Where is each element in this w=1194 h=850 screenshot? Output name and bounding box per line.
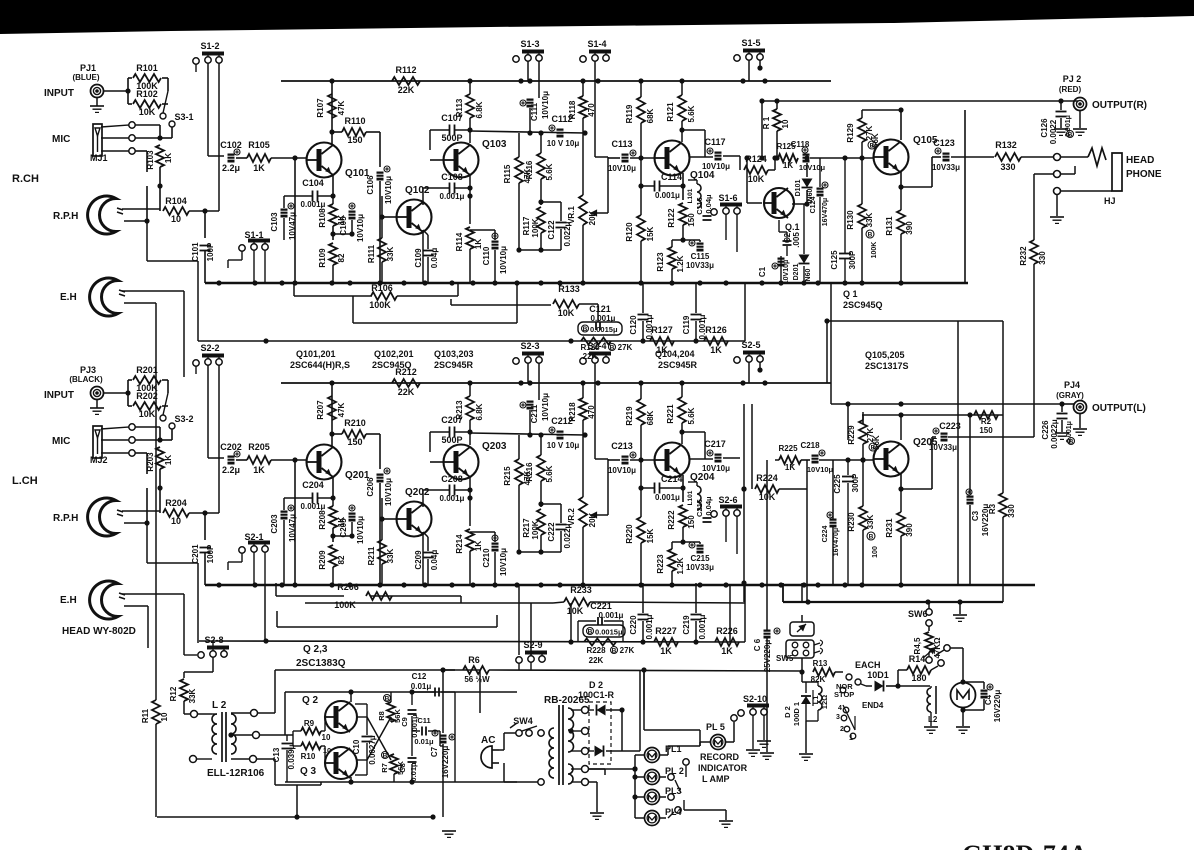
svg-text:C9: C9	[400, 717, 409, 727]
svg-text:C224: C224	[822, 526, 829, 543]
head R.PH ch2	[88, 498, 116, 536]
resistor R103 1K	[156, 145, 164, 167]
svg-text:IN60: IN60	[805, 269, 812, 284]
coil L101 3mH	[697, 486, 701, 510]
svg-text:Q102,201: Q102,201	[374, 349, 414, 359]
svg-text:Q 2: Q 2	[302, 695, 319, 706]
switch S2-3	[513, 358, 519, 364]
capacitor C114 0.001u	[654, 181, 656, 192]
wire ch1 top supply bus	[281, 80, 831, 82]
svg-text:C215: C215	[690, 554, 710, 563]
svg-text:R118: R118	[568, 100, 577, 119]
head R.PH ch1	[88, 196, 116, 234]
svg-text:10V10μ: 10V10μ	[608, 164, 636, 173]
switch S1-4	[580, 56, 586, 62]
bias transformer core	[221, 712, 223, 762]
svg-text:470: 470	[587, 103, 596, 117]
svg-text:6.8K: 6.8K	[475, 101, 484, 118]
wire Q101 emitter	[332, 175, 334, 196]
svg-text:100P: 100P	[206, 242, 215, 261]
capacitor C113 10V10u	[622, 154, 629, 163]
svg-text:R227: R227	[655, 626, 677, 636]
wire R232 drop	[1034, 173, 1053, 175]
svg-text:3: 3	[836, 714, 840, 721]
wire SW5 to bus	[801, 583, 803, 602]
svg-text:C116: C116	[695, 197, 704, 215]
svg-text:END4: END4	[862, 701, 884, 710]
wire R133 run	[450, 299, 452, 305]
svg-text:R216: R216	[525, 462, 534, 482]
svg-text:R110: R110	[344, 116, 365, 126]
transformer T1 core	[558, 705, 560, 785]
svg-text:R132: R132	[995, 140, 1017, 150]
capacitor C101 100P	[200, 245, 211, 247]
svg-text:R117: R117	[522, 216, 531, 235]
wire feedback level2	[352, 296, 354, 323]
svg-text:E.H: E.H	[60, 292, 77, 303]
svg-text:R11: R11	[141, 708, 150, 723]
svg-text:0.001μ: 0.001μ	[655, 191, 680, 200]
wire C7 drop	[442, 670, 444, 733]
transformer T1 primary	[549, 728, 554, 778]
lamp PL1	[645, 748, 660, 763]
resistor R11 10	[152, 700, 160, 724]
resistor R101 100K	[133, 74, 161, 82]
svg-text:33K: 33K	[865, 212, 874, 227]
svg-text:390: 390	[905, 221, 914, 235]
wire C101 to bus	[204, 251, 206, 283]
wire C206 down	[379, 483, 381, 585]
svg-text:S2-8: S2-8	[204, 635, 223, 645]
svg-text:100K: 100K	[871, 242, 878, 259]
transistor Q1	[764, 188, 794, 218]
capacitor C107 500P	[449, 125, 451, 136]
capacitor C13 0.039u	[281, 745, 285, 747]
svg-text:GH8D-74A: GH8D-74A	[962, 840, 1088, 850]
svg-text:16V470μ: 16V470μ	[833, 528, 840, 556]
resistor R111 33K	[378, 238, 386, 262]
svg-text:B: B	[612, 648, 617, 655]
wire osc box bottom	[454, 782, 456, 785]
resistor R224 10K	[755, 485, 779, 493]
svg-text:10V10μ: 10V10μ	[783, 260, 790, 285]
svg-text:C111: C111	[530, 102, 539, 121]
svg-text:10V33μ: 10V33μ	[929, 443, 957, 452]
resistor R1 10	[773, 109, 781, 131]
svg-text:10K: 10K	[567, 606, 584, 616]
svg-text:27K: 27K	[620, 646, 635, 655]
wire R104 to C101	[189, 210, 219, 212]
svg-text:PJ4: PJ4	[1064, 380, 1080, 390]
svg-text:10V10μ: 10V10μ	[356, 214, 365, 242]
svg-text:L101: L101	[687, 188, 694, 203]
wire Q204 emitter	[682, 475, 684, 502]
switch S1-2	[193, 58, 199, 64]
wire ch2 bottom ground bus	[205, 584, 1035, 586]
svg-text:100K: 100K	[531, 218, 540, 237]
svg-text:R215: R215	[503, 466, 512, 486]
svg-text:2SC945Q: 2SC945Q	[843, 300, 883, 310]
svg-text:R228: R228	[586, 646, 606, 655]
wire emitter junction	[332, 226, 334, 240]
switch S1-6	[711, 209, 717, 215]
svg-text:C225: C225	[833, 474, 842, 494]
wire C3 R3 drops	[969, 415, 971, 494]
svg-text:5.6K: 5.6K	[687, 407, 696, 424]
svg-text:S1-5: S1-5	[741, 38, 760, 48]
switch S1-3	[513, 56, 519, 62]
svg-text:R113: R113	[455, 98, 464, 117]
svg-text:R4,5: R4,5	[913, 637, 922, 654]
svg-text:1K: 1K	[660, 646, 672, 656]
svg-text:33K: 33K	[386, 246, 395, 261]
transformer T1 secondary2	[568, 764, 573, 784]
svg-text:MJ2: MJ2	[90, 455, 108, 465]
motor M	[951, 683, 976, 708]
wire AC loop	[499, 749, 504, 751]
svg-text:5.6K: 5.6K	[545, 163, 554, 180]
resistor R8 56K	[387, 702, 395, 722]
resistor R214 1K	[466, 529, 474, 551]
capacitor C204 0.001u	[312, 493, 314, 504]
svg-text:PL 5: PL 5	[706, 722, 725, 732]
lamp PL5 record indicator	[711, 735, 726, 750]
svg-text:R208: R208	[318, 510, 327, 530]
switch S2-2	[193, 360, 199, 366]
wire R233 rail	[275, 583, 277, 596]
rectifier dashed box	[589, 702, 611, 764]
svg-text:VR.2: VR.2	[567, 508, 576, 526]
svg-text:10K: 10K	[748, 174, 765, 184]
svg-text:C122: C122	[547, 220, 556, 240]
wire PJ1 to resistors	[104, 90, 128, 92]
svg-text:10V10μ: 10V10μ	[541, 393, 550, 421]
wire bias bottom rail	[157, 816, 433, 818]
capacitor C6 25V220u	[766, 614, 768, 660]
svg-text:150: 150	[979, 426, 993, 435]
svg-text:C216: C216	[695, 499, 704, 517]
svg-text:C114: C114	[661, 172, 682, 182]
wire C201 to bus	[204, 553, 206, 585]
diode D201 IN60	[799, 255, 810, 264]
resistor R230 33K	[859, 506, 867, 530]
svg-text:B: B	[383, 753, 388, 760]
lamp PL4	[645, 811, 660, 826]
capacitor C109 0.04u	[423, 250, 434, 252]
svg-text:2.2μ: 2.2μ	[222, 465, 240, 475]
wire ch2 frame right	[957, 321, 959, 585]
capacitor C120 0.001u	[642, 283, 644, 313]
svg-text:C1: C1	[758, 266, 767, 277]
wire osc to C7	[439, 744, 441, 746]
wire left trunk2	[146, 523, 148, 563]
wire R203 down	[159, 469, 161, 488]
svg-text:10: 10	[781, 119, 790, 128]
svg-text:10D1: 10D1	[867, 670, 889, 680]
svg-text:300P: 300P	[848, 250, 857, 269]
resistor R217 100K	[537, 509, 545, 535]
resistor R127 1K	[650, 337, 674, 345]
svg-text:500P: 500P	[441, 133, 462, 143]
wire mid rail2	[277, 626, 497, 628]
resistor R233 10K	[564, 598, 590, 606]
wire C106 down	[379, 181, 381, 283]
svg-text:0.001μ: 0.001μ	[655, 493, 680, 502]
svg-text:R122: R122	[667, 208, 676, 228]
svg-text:0.04μ: 0.04μ	[430, 248, 439, 269]
resistor R4,5 47K	[925, 632, 933, 652]
capacitor C207 500P	[449, 427, 451, 438]
svg-text:C103: C103	[270, 212, 279, 232]
jack PJ4 output	[1074, 401, 1087, 414]
wire riser columns	[518, 585, 520, 655]
capacitor C110 10V10u	[492, 241, 499, 250]
svg-text:C203: C203	[270, 514, 279, 534]
svg-text:0.039μ: 0.039μ	[287, 744, 296, 769]
svg-text:C220: C220	[629, 615, 638, 635]
svg-text:10K: 10K	[139, 107, 156, 117]
resistor R231 390	[897, 512, 905, 536]
svg-text:10V10μ: 10V10μ	[499, 246, 508, 274]
svg-text:R232: R232	[1019, 246, 1028, 266]
svg-text:330: 330	[1007, 504, 1016, 518]
capacitor C8 0.01u	[408, 757, 417, 759]
capacitor C226 0.0022u	[1057, 413, 1068, 415]
resistor R9 10	[301, 728, 321, 735]
wire ch1 bottom ground bus	[205, 282, 968, 284]
wire ch2 R2 row	[862, 414, 1003, 416]
head E.H ch2	[90, 581, 118, 619]
svg-text:330: 330	[1000, 162, 1015, 172]
coil L2 motor	[927, 688, 931, 712]
svg-text:B: B	[588, 629, 593, 636]
wire Q2 collector	[350, 692, 352, 702]
wire Q101 collector	[331, 81, 333, 145]
svg-text:1.2K: 1.2K	[676, 255, 685, 272]
svg-text:R6: R6	[468, 655, 480, 665]
svg-text:(BLUE): (BLUE)	[72, 73, 99, 82]
resistor R130 33K	[858, 204, 866, 228]
wire record rail	[699, 730, 701, 746]
svg-text:EACH: EACH	[855, 660, 881, 670]
wire lamp select	[673, 768, 675, 777]
resistor R123 1.2K	[668, 247, 676, 269]
svg-text:R101: R101	[136, 63, 158, 73]
capacitor C111 10V10u	[527, 99, 534, 108]
svg-text:C4: C4	[984, 694, 993, 705]
capacitor C201 100P	[200, 547, 211, 549]
svg-text:RECORD: RECORD	[700, 752, 740, 762]
svg-text:C115: C115	[691, 252, 710, 261]
switch S3-1	[160, 113, 166, 119]
svg-text:10V10μ: 10V10μ	[702, 162, 730, 171]
svg-text:22K: 22K	[583, 352, 598, 361]
svg-text:INDICATOR: INDICATOR	[698, 763, 748, 773]
capacitor C217 10V10u	[715, 454, 722, 463]
svg-text:33K: 33K	[188, 688, 197, 703]
resistor R207 47K	[328, 396, 336, 420]
lamp PL2	[645, 770, 660, 785]
wire osc bottom rail	[285, 781, 517, 783]
svg-text:C106: C106	[366, 175, 375, 195]
svg-text:C11: C11	[417, 716, 430, 725]
ground headphone	[1056, 195, 1058, 216]
svg-text:500P: 500P	[441, 435, 462, 445]
wire rectifier out	[621, 710, 623, 751]
svg-text:100K: 100K	[334, 600, 356, 610]
svg-text:0.01μ: 0.01μ	[411, 682, 432, 691]
scan black border top	[0, 0, 1194, 34]
jack PJ1 input	[91, 387, 104, 400]
switch mode contacts	[846, 674, 852, 680]
svg-text:R133: R133	[558, 284, 580, 294]
svg-text:B: B	[1068, 132, 1073, 139]
svg-text:5.6K: 5.6K	[545, 465, 554, 482]
svg-text:C13: C13	[272, 747, 281, 762]
wire ch2 long verticals	[766, 460, 768, 614]
wire emitter junction	[332, 528, 334, 542]
resistor R121 5.6K	[678, 95, 686, 121]
svg-text:22K: 22K	[589, 656, 604, 665]
transformer T1 terminals	[582, 707, 589, 714]
svg-text:10: 10	[322, 733, 331, 742]
svg-text:R111: R111	[367, 244, 376, 263]
resistor R112 22K	[332, 80, 390, 82]
svg-text:C201: C201	[191, 544, 200, 564]
resistor R213 6.8K	[466, 396, 474, 420]
wire feedback R106 run	[293, 283, 295, 296]
capacitor C203 10V47u	[281, 511, 288, 520]
svg-text:150: 150	[687, 213, 696, 227]
svg-text:10K: 10K	[558, 308, 575, 318]
svg-text:B: B	[868, 232, 873, 239]
svg-text:2SC1383Q: 2SC1383Q	[296, 658, 346, 669]
svg-text:1K: 1K	[164, 455, 173, 465]
svg-text:R126: R126	[705, 325, 727, 335]
wire Q104 emitter	[682, 173, 684, 200]
svg-text:R201: R201	[136, 365, 158, 375]
svg-text:C12: C12	[412, 672, 427, 681]
resistor R222 150	[679, 505, 687, 527]
wire base Q101	[271, 157, 306, 159]
svg-text:R116: R116	[525, 160, 534, 179]
svg-text:C113: C113	[611, 139, 632, 149]
svg-text:R130: R130	[846, 210, 855, 230]
svg-text:R.P.H: R.P.H	[53, 513, 78, 524]
svg-text:C10: C10	[352, 739, 361, 754]
resistor R210 150	[332, 433, 342, 435]
svg-text:10 V 10μ: 10 V 10μ	[547, 441, 580, 450]
wire Q105 emitter out	[900, 172, 902, 187]
resistor R225 1K	[779, 456, 801, 464]
capacitor C212 10V10u	[557, 431, 564, 440]
svg-text:C219: C219	[682, 615, 691, 635]
capacitor C123 10V33u	[943, 153, 950, 162]
svg-text:Q202: Q202	[405, 487, 430, 498]
svg-text:R203: R203	[146, 452, 155, 472]
wire Q1 base	[746, 158, 748, 203]
svg-text:C206: C206	[366, 477, 375, 497]
svg-text:0.001μ: 0.001μ	[440, 494, 465, 503]
svg-text:R2: R2	[981, 417, 992, 426]
resistor R133 10K	[553, 300, 579, 308]
svg-text:C 6: C 6	[753, 638, 762, 651]
wire R124 branch	[739, 156, 741, 170]
svg-text:L AMP: L AMP	[702, 774, 730, 784]
capacitor C222 0.022u	[556, 524, 567, 526]
svg-text:R225: R225	[778, 444, 798, 453]
transistor Q105	[874, 140, 909, 175]
resistor R106 100K	[371, 292, 397, 300]
ground PJ2	[1079, 110, 1081, 128]
capacitor C206 10V10u	[377, 474, 384, 483]
wire C112 row	[470, 131, 585, 133]
svg-text:C104: C104	[302, 178, 324, 188]
svg-text:0.001μ: 0.001μ	[440, 192, 465, 201]
svg-text:SW6: SW6	[908, 609, 928, 619]
capacitor C7 16V220u	[440, 735, 447, 744]
svg-text:10V47μ: 10V47μ	[288, 514, 297, 542]
svg-text:0.001μ: 0.001μ	[645, 614, 654, 639]
wire S2-8 down	[212, 657, 214, 672]
capacitor C215 10V33u	[697, 545, 704, 554]
svg-text:2SC644(H)R,S: 2SC644(H)R,S	[290, 360, 350, 370]
capacitor C3 16V220u	[967, 496, 974, 505]
svg-text:D 2: D 2	[589, 680, 603, 690]
svg-text:S1-4: S1-4	[587, 39, 606, 49]
wire mic to R103	[135, 124, 160, 126]
svg-text:47K: 47K	[337, 402, 346, 417]
capacitor C125 300P	[839, 253, 851, 255]
svg-text:C121: C121	[589, 304, 611, 314]
wire mic to R203	[135, 426, 160, 428]
svg-text:10V33μ: 10V33μ	[686, 261, 714, 270]
svg-text:10K: 10K	[139, 409, 156, 419]
resistor R221 5.6K	[678, 397, 686, 423]
resistor R229 27K	[859, 420, 867, 444]
svg-text:C109: C109	[414, 248, 423, 268]
svg-text:R.P.H: R.P.H	[53, 211, 78, 222]
svg-text:1.2K: 1.2K	[676, 557, 685, 574]
wire L2 left leads	[184, 713, 190, 715]
svg-text:Q105,205: Q105,205	[865, 350, 905, 360]
wire Q103 base	[430, 159, 443, 161]
resistor R13 82K	[813, 668, 835, 676]
capacitor C105 10V10u	[349, 211, 356, 220]
svg-text:C117: C117	[704, 137, 725, 147]
svg-text:SW4: SW4	[513, 716, 533, 726]
svg-text:C226: C226	[1041, 420, 1050, 440]
svg-text:10V10μ: 10V10μ	[702, 464, 730, 473]
svg-text:OUTPUT(L): OUTPUT(L)	[1092, 403, 1146, 414]
svg-text:R105: R105	[248, 140, 270, 150]
headphone plug symbol	[1061, 156, 1088, 158]
svg-text:C209: C209	[414, 550, 423, 570]
svg-text:R119: R119	[625, 104, 634, 123]
svg-text:L1: L1	[811, 696, 820, 705]
resistor R131 390	[897, 210, 905, 234]
wire head to R104	[122, 208, 160, 210]
svg-text:R106: R106	[371, 283, 393, 293]
svg-text:47K: 47K	[337, 100, 346, 115]
bias transformer secondary	[231, 714, 236, 754]
wire E.H ch1 leads	[122, 290, 184, 292]
svg-text:R217: R217	[522, 518, 531, 538]
svg-text:0.04μ: 0.04μ	[430, 550, 439, 571]
wire ch1 output line	[762, 100, 1061, 102]
resistor R205 1K	[236, 459, 247, 461]
svg-text:R206: R206	[337, 582, 359, 592]
